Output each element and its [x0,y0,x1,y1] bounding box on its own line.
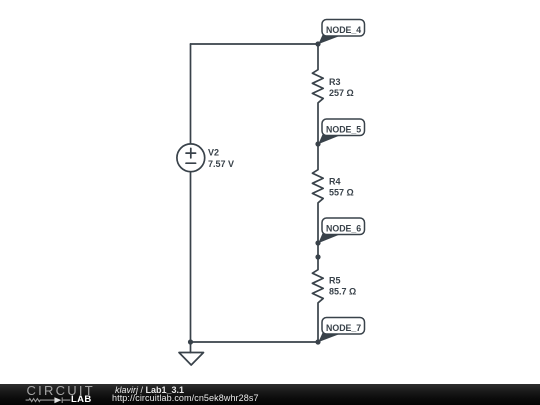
svg-text:257 Ω: 257 Ω [329,88,354,98]
svg-text:NODE_5: NODE_5 [326,124,361,134]
svg-text:R4: R4 [329,177,341,187]
svg-text:R3: R3 [329,77,341,87]
svg-text:7.57 V: 7.57 V [208,159,234,169]
svg-text:NODE_4: NODE_4 [326,25,361,35]
svg-text:V2: V2 [208,147,219,157]
svg-text:NODE_6: NODE_6 [326,223,361,233]
svg-text:85.7 Ω: 85.7 Ω [329,287,356,297]
svg-text:NODE_7: NODE_7 [326,323,361,333]
svg-text:R5: R5 [329,276,341,286]
svg-text:557 Ω: 557 Ω [329,187,354,197]
